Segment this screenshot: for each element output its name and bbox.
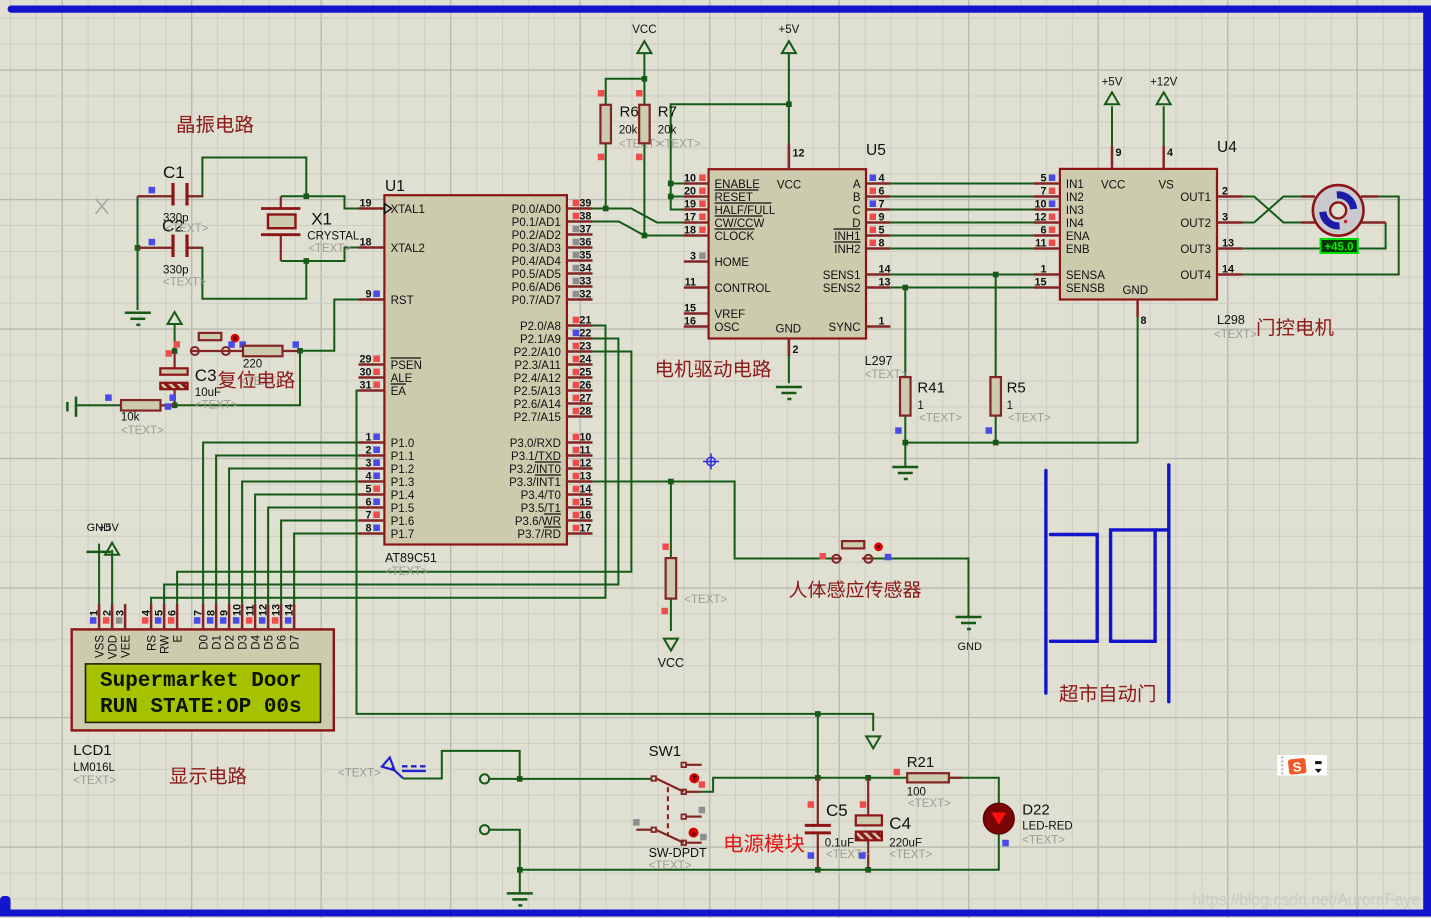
- svg-text:16: 16: [684, 316, 696, 328]
- svg-text:P1.6: P1.6: [391, 516, 415, 528]
- wire +5V to U5 pin 12 and ENABLE/RESET/HALF-FULL: [671, 52, 789, 209]
- ground for U5: [776, 386, 802, 389]
- U4 pin 4 VS top: [1164, 146, 1173, 169]
- svg-text:4: 4: [141, 610, 153, 616]
- svg-text:XTAL2: XTAL2: [391, 243, 425, 255]
- svg-text:ENB: ENB: [1066, 244, 1090, 256]
- svg-text:D: D: [852, 218, 860, 230]
- junction reset node: [172, 348, 178, 354]
- svg-text:34: 34: [579, 263, 591, 275]
- svg-text:SENS1: SENS1: [823, 270, 861, 282]
- svg-text:11: 11: [1035, 238, 1046, 250]
- svg-text:33: 33: [579, 276, 591, 288]
- svg-text:<TEXT>: <TEXT>: [195, 400, 238, 412]
- svg-text:+12V: +12V: [1150, 76, 1178, 88]
- capacitor C2: [138, 217, 209, 289]
- svg-text:<TEXT>: <TEXT>: [166, 223, 209, 235]
- svg-text:13: 13: [579, 471, 591, 483]
- wire P2.1 to LCD RW: [164, 339, 618, 604]
- power +5V top: [779, 24, 800, 53]
- svg-text:20k: 20k: [619, 125, 638, 137]
- junction C4 bottom: [865, 867, 871, 873]
- svg-text:P3.3/INT1: P3.3/INT1: [509, 477, 561, 489]
- svg-text:<TEXT>: <TEXT>: [889, 849, 932, 861]
- resistor 10k: [105, 394, 174, 437]
- svg-text:VREF: VREF: [715, 309, 746, 321]
- svg-text:8: 8: [1141, 315, 1147, 327]
- svg-text:2: 2: [365, 445, 371, 457]
- wire P0.1 to CLOCK: [593, 222, 684, 236]
- svg-text:P0.6/AD6: P0.6/AD6: [512, 282, 561, 294]
- svg-text:U4: U4: [1217, 139, 1237, 156]
- svg-text:P2.5/A13: P2.5/A13: [514, 386, 561, 398]
- wire P0.0 to CW/CCW: [593, 209, 684, 223]
- svg-text:A: A: [853, 179, 861, 191]
- svg-text:SYNC: SYNC: [829, 322, 861, 334]
- U1 left pins: [359, 198, 425, 542]
- wire R41 lead: [904, 288, 906, 378]
- power +5V for U4: [1102, 76, 1123, 146]
- svg-text:R7: R7: [658, 104, 677, 121]
- junction R5 top: [993, 272, 999, 278]
- svg-text:<TEXT>: <TEXT>: [163, 277, 206, 289]
- svg-text:P0.3/AD3: P0.3/AD3: [512, 243, 561, 255]
- capacitor C5: [805, 801, 869, 861]
- svg-text:11: 11: [245, 605, 257, 616]
- junction crystal bottom: [304, 258, 310, 264]
- U1 right pins: [509, 198, 592, 541]
- svg-text:19: 19: [359, 198, 371, 210]
- svg-text:8: 8: [206, 610, 218, 616]
- resistor R6: [598, 90, 662, 160]
- svg-text:U1: U1: [385, 178, 405, 195]
- svg-text:13: 13: [879, 277, 891, 289]
- wire reset loop: [175, 351, 300, 406]
- power +5V LCD VDD: [99, 522, 120, 555]
- svg-text:5: 5: [365, 484, 371, 496]
- svg-text:VCC: VCC: [1101, 180, 1125, 192]
- svg-text:RST: RST: [391, 295, 414, 307]
- junction R7 top: [642, 76, 648, 82]
- ground for C1 C2: [125, 312, 151, 315]
- svg-text:13: 13: [1222, 238, 1234, 250]
- svg-text:VCC: VCC: [632, 24, 656, 36]
- svg-text:B: B: [853, 192, 861, 204]
- svg-text:20: 20: [684, 186, 696, 198]
- svg-text:C3: C3: [195, 366, 217, 385]
- U4 left pins: [1034, 173, 1105, 296]
- junction crystal top: [304, 194, 310, 200]
- svg-text:OUT2: OUT2: [1180, 218, 1211, 230]
- svg-text:LCD1: LCD1: [73, 742, 111, 759]
- svg-text:P1.0: P1.0: [391, 438, 415, 450]
- svg-text:VDD: VDD: [108, 635, 120, 659]
- svg-text:19: 19: [684, 199, 696, 211]
- wire sense ground rail: [905, 317, 1137, 467]
- crystal X1: [261, 196, 360, 261]
- svg-text:D3: D3: [238, 635, 250, 650]
- motor stepper: [1301, 185, 1386, 236]
- svg-text:SENSA: SENSA: [1066, 270, 1105, 282]
- svg-text:P2.0/A8: P2.0/A8: [520, 321, 561, 333]
- svg-text:AT89C51: AT89C51: [385, 551, 437, 565]
- motor angle display +45.0: [1321, 239, 1358, 254]
- svg-text:7: 7: [1040, 186, 1046, 198]
- svg-text:6: 6: [879, 186, 885, 198]
- U4 pin 8 GND bottom: [1138, 300, 1147, 328]
- label body sensor: [789, 580, 921, 598]
- U5 pin 2 GND bottom: [789, 339, 799, 357]
- svg-text:GND: GND: [1122, 285, 1148, 297]
- power +5V reset circuit: [168, 312, 182, 351]
- wire C5 body leads: [817, 778, 819, 870]
- svg-text:CLOCK: CLOCK: [715, 231, 755, 243]
- svg-text:11: 11: [579, 445, 590, 457]
- junction RESET: [668, 194, 674, 200]
- svg-text:15: 15: [1034, 277, 1046, 289]
- origin marker: [703, 454, 719, 470]
- resistor R21: [894, 754, 962, 810]
- svg-text:12: 12: [793, 148, 805, 160]
- svg-text:GND: GND: [776, 324, 802, 336]
- junction sense rail right: [993, 440, 999, 446]
- CSDN logo box: [1277, 755, 1327, 776]
- wire P3.3 to sensor switch and pull resistor: [593, 482, 833, 559]
- svg-text:P3.0/RXD: P3.0/RXD: [510, 438, 561, 450]
- wire connector to SW1 pole: [489, 778, 651, 780]
- capacitor C3 10uF: [160, 351, 238, 411]
- svg-text:P3.6/WR: P3.6/WR: [515, 516, 561, 528]
- svg-text:10: 10: [232, 604, 244, 616]
- svg-text:HALF/FULL: HALF/FULL: [715, 205, 776, 217]
- resistor R7: [636, 90, 701, 160]
- label motor drive circuit: [657, 360, 771, 378]
- svg-text:100: 100: [907, 787, 926, 799]
- wire battery to connector junction: [403, 751, 520, 779]
- chip U1 AT89C51: [384, 178, 567, 578]
- svg-text:LM016L: LM016L: [73, 762, 115, 774]
- svg-text:R21: R21: [907, 754, 935, 771]
- svg-text:8: 8: [879, 238, 885, 250]
- svg-text:D22: D22: [1022, 802, 1050, 819]
- svg-text:3: 3: [365, 458, 371, 470]
- svg-text:P1.2: P1.2: [391, 464, 415, 476]
- svg-text:12: 12: [1034, 212, 1046, 224]
- power VCC down arrow (sensor): [658, 639, 684, 670]
- svg-text:36: 36: [579, 237, 591, 249]
- svg-text:D6: D6: [277, 635, 289, 650]
- svg-text:C4: C4: [889, 814, 911, 833]
- svg-text:39: 39: [579, 198, 591, 210]
- supermarket door drawing: [1046, 465, 1169, 702]
- capacitor C4 220uF: [856, 801, 933, 861]
- svg-text:EA: EA: [391, 386, 407, 398]
- svg-text:10uF: 10uF: [195, 387, 221, 399]
- svg-text:0.1uF: 0.1uF: [825, 838, 854, 850]
- svg-text:<TEXT>: <TEXT>: [1008, 413, 1051, 425]
- svg-text:13: 13: [271, 604, 283, 616]
- svg-text:3: 3: [1222, 212, 1228, 224]
- svg-text:P0.7/AD7: P0.7/AD7: [512, 295, 561, 307]
- svg-text:RESET: RESET: [715, 192, 753, 204]
- svg-text:CW/CCW: CW/CCW: [715, 218, 765, 230]
- svg-text:D2: D2: [225, 635, 237, 650]
- svg-text:VCC: VCC: [658, 656, 684, 670]
- svg-text:220uF: 220uF: [889, 838, 922, 850]
- wire motor OUT2 cross: [1243, 197, 1301, 223]
- svg-text:26: 26: [579, 380, 591, 392]
- svg-text:5: 5: [154, 610, 166, 616]
- svg-text:P1.4: P1.4: [391, 490, 415, 502]
- chip U5 L297: [709, 142, 908, 381]
- svg-text:35: 35: [579, 250, 591, 262]
- svg-text:15: 15: [684, 303, 696, 315]
- svg-text:P0.1/AD1: P0.1/AD1: [512, 217, 561, 229]
- svg-text:8: 8: [365, 523, 371, 535]
- sensor button: [820, 541, 892, 563]
- svg-text:6: 6: [1040, 225, 1046, 237]
- svg-text:+5V: +5V: [1102, 76, 1123, 88]
- ground sense rail: [892, 466, 918, 469]
- svg-text:14: 14: [579, 484, 591, 496]
- svg-text:330p: 330p: [163, 264, 189, 276]
- svg-text:C5: C5: [826, 801, 848, 820]
- svg-text:24: 24: [579, 354, 591, 366]
- svg-text:17: 17: [684, 212, 696, 224]
- svg-text:P2.2/A10: P2.2/A10: [514, 347, 561, 359]
- svg-text:P3.2/INT0: P3.2/INT0: [509, 464, 561, 476]
- U4 right pins: [1180, 186, 1242, 283]
- wire R7 bottom to CLOCK net: [643, 143, 645, 235]
- svg-text:P1.5: P1.5: [391, 503, 415, 515]
- power +12V for U4: [1150, 76, 1178, 146]
- junction C2 left: [135, 245, 141, 251]
- U5 left pins: [684, 173, 776, 335]
- wire connector 2 to ground rail: [489, 830, 520, 894]
- U5 right pins: [823, 173, 891, 335]
- wire SW1 output to VCC rail: [702, 778, 908, 792]
- LED D22 LED-RED: [984, 802, 1073, 847]
- svg-text:6: 6: [167, 610, 179, 616]
- svg-text:<TEXT>: <TEXT>: [73, 775, 116, 787]
- svg-text:38: 38: [579, 211, 591, 223]
- wire sensor switch to GND: [873, 559, 969, 618]
- svg-text:9: 9: [365, 289, 371, 301]
- svg-text:P0.0/AD0: P0.0/AD0: [512, 204, 561, 216]
- svg-text:P2.3/A11: P2.3/A11: [514, 360, 560, 372]
- svg-text:OSC: OSC: [715, 322, 740, 334]
- svg-text:R5: R5: [1007, 380, 1026, 397]
- svg-text:D1: D1: [212, 635, 224, 650]
- svg-text:VSS: VSS: [95, 635, 107, 658]
- svg-text:7: 7: [193, 610, 205, 616]
- svg-text:5: 5: [879, 225, 885, 237]
- svg-text:INH1: INH1: [834, 231, 860, 243]
- svg-text:HOME: HOME: [715, 257, 750, 269]
- label door motor: [1258, 318, 1334, 336]
- label crystal circuit: [178, 115, 254, 133]
- svg-text:<TEXT>: <TEXT>: [1022, 835, 1065, 847]
- svg-text:Supermarket Door: Supermarket Door: [100, 670, 302, 693]
- svg-text:18: 18: [359, 237, 371, 249]
- wire EA to power module: [357, 391, 874, 732]
- ground terminal 10k resistor: [67, 397, 121, 417]
- svg-text:<TEXT>: <TEXT>: [1214, 329, 1257, 341]
- svg-text:3: 3: [115, 610, 127, 616]
- svg-text:SW-DPDT: SW-DPDT: [649, 846, 707, 860]
- svg-text:10k: 10k: [121, 412, 140, 424]
- wire crystal top net (C1 right - XTAL1): [189, 158, 359, 209]
- label power module: [726, 834, 805, 853]
- svg-text:7: 7: [365, 510, 371, 522]
- svg-text:1: 1: [365, 432, 371, 444]
- svg-text:CRYSTAL: CRYSTAL: [307, 231, 360, 243]
- svg-text:9: 9: [1116, 147, 1122, 159]
- svg-text:1: 1: [89, 610, 101, 616]
- svg-text:D4: D4: [251, 634, 263, 649]
- svg-text:10: 10: [684, 173, 696, 185]
- svg-text:https://blog.csdn.net/AuroraFa: https://blog.csdn.net/AuroraFaye: [1192, 891, 1420, 909]
- ground power module: [507, 892, 533, 895]
- svg-text:OUT3: OUT3: [1180, 244, 1211, 256]
- svg-text:30: 30: [359, 367, 371, 379]
- wire VCC to R6 R7 tops: [606, 52, 645, 104]
- svg-text:<TEXT>: <TEXT>: [658, 139, 701, 151]
- wire D22 to ground rail: [520, 834, 999, 870]
- junction C5 top: [815, 775, 821, 781]
- svg-text:XTAL1: XTAL1: [391, 204, 425, 216]
- svg-text:P0.4/AD4: P0.4/AD4: [512, 256, 562, 268]
- svg-text:1: 1: [879, 316, 885, 328]
- svg-text:IN3: IN3: [1066, 205, 1084, 217]
- svg-text:P1.3: P1.3: [391, 477, 415, 489]
- svg-text:1: 1: [1040, 264, 1046, 276]
- wire motor lower right to OUT3: [1243, 223, 1386, 249]
- svg-text:P1.7: P1.7: [391, 529, 415, 541]
- svg-text:7: 7: [879, 199, 885, 211]
- svg-text:31: 31: [359, 380, 371, 392]
- junction 220 right: [297, 348, 303, 354]
- svg-text:X1: X1: [311, 209, 332, 228]
- svg-text:2: 2: [102, 610, 114, 616]
- resistor 220: [226, 341, 300, 370]
- svg-text:RS: RS: [147, 635, 159, 651]
- junction EA rail: [815, 711, 821, 717]
- no-connect X marker: [96, 199, 109, 214]
- svg-text:29: 29: [359, 354, 371, 366]
- svg-text:D0: D0: [199, 635, 211, 650]
- svg-text:P2.7/A15: P2.7/A15: [514, 412, 561, 424]
- switch SW1 SW-DPDT: [633, 743, 707, 872]
- wire motor OUT1 cross: [1243, 197, 1301, 223]
- svg-text:220: 220: [243, 359, 262, 371]
- svg-text:14: 14: [1222, 264, 1234, 276]
- LCD pins: [89, 604, 302, 659]
- svg-text:OUT1: OUT1: [1180, 192, 1211, 204]
- reset circuit button: [191, 333, 246, 355]
- svg-text:RUN STATE:OP 00s: RUN STATE:OP 00s: [100, 696, 302, 719]
- svg-text:P3.1/TXD: P3.1/TXD: [511, 451, 561, 463]
- junction C3 bottom: [172, 403, 178, 409]
- svg-text:11: 11: [685, 277, 696, 289]
- svg-text:32: 32: [579, 289, 591, 301]
- svg-text:<TEXT>: <TEXT>: [649, 860, 692, 872]
- svg-text:4: 4: [1167, 147, 1173, 159]
- svg-text:20k: 20k: [658, 125, 677, 137]
- svg-text:PSEN: PSEN: [391, 360, 422, 372]
- wire R21 to D22: [949, 778, 999, 804]
- svg-text:P0.5/AD5: P0.5/AD5: [512, 269, 561, 281]
- svg-text:27: 27: [579, 393, 591, 405]
- svg-text:12: 12: [579, 458, 591, 470]
- wire LCD VSS to ground bar: [98, 553, 100, 604]
- squares reset node: [166, 341, 181, 357]
- svg-text:16: 16: [579, 510, 591, 522]
- resistor R5: [986, 377, 1052, 434]
- svg-text:D7: D7: [290, 635, 302, 650]
- svg-text:L297: L297: [865, 354, 893, 368]
- capacitor C1: [138, 163, 203, 224]
- junction C5 bottom: [815, 867, 821, 873]
- svg-text:VEE: VEE: [121, 635, 133, 658]
- svg-text:<TEXT>: <TEXT>: [908, 798, 951, 810]
- wire P1.0-P1.7 to LCD D0-D7: [203, 443, 358, 604]
- svg-text:5: 5: [1040, 173, 1046, 185]
- svg-text:SENS2: SENS2: [823, 283, 861, 295]
- svg-text:18: 18: [684, 225, 696, 237]
- svg-text:10: 10: [579, 432, 591, 444]
- junction R41 top: [903, 285, 909, 291]
- svg-text:22: 22: [579, 328, 591, 340]
- svg-text:37: 37: [579, 224, 591, 236]
- ground sensor switch: [956, 617, 983, 653]
- svg-text:IN4: IN4: [1066, 218, 1085, 230]
- svg-text:25: 25: [579, 367, 591, 379]
- wire R6 bottom to P0.0 net: [605, 143, 607, 208]
- U5 pin 12 VCC top: [789, 143, 805, 169]
- svg-text:L298: L298: [1217, 313, 1245, 327]
- svg-text:P2.4/A12: P2.4/A12: [514, 373, 561, 385]
- svg-text:OUT4: OUT4: [1180, 270, 1211, 282]
- wire U5 GND pin to ground: [788, 356, 790, 383]
- svg-text:<TEXT>: <TEXT>: [684, 594, 727, 606]
- svg-text:21: 21: [579, 315, 591, 327]
- svg-text:2: 2: [793, 344, 799, 356]
- svg-text:14: 14: [879, 264, 891, 276]
- svg-text:U5: U5: [866, 142, 886, 159]
- svg-text:RW: RW: [160, 635, 172, 654]
- junction ENABLE: [668, 181, 674, 187]
- power down arrow (EA rail): [866, 736, 880, 748]
- wire P2.0 to LCD RS: [151, 326, 605, 604]
- svg-text:LED-RED: LED-RED: [1022, 821, 1072, 833]
- svg-text:P2.6/A14: P2.6/A14: [514, 399, 562, 411]
- resistor R41: [895, 377, 962, 434]
- wire R5 lead: [995, 275, 997, 378]
- svg-text:ENABLE: ENABLE: [715, 179, 761, 191]
- svg-text:IN1: IN1: [1066, 179, 1084, 191]
- junction P0.0 R6: [603, 206, 609, 212]
- svg-text:<TEXT>: <TEXT>: [338, 768, 381, 780]
- svg-text:E: E: [173, 635, 185, 643]
- U4 pin 9 VCC top: [1112, 146, 1122, 169]
- wire C1-C2 left to ground: [138, 196, 172, 310]
- junction +5V branch: [786, 101, 792, 107]
- svg-text:17: 17: [579, 523, 591, 535]
- svg-text:3: 3: [690, 251, 696, 263]
- svg-text:P3.7/RD: P3.7/RD: [517, 529, 560, 541]
- svg-text:<TEXT>: <TEXT>: [385, 566, 428, 578]
